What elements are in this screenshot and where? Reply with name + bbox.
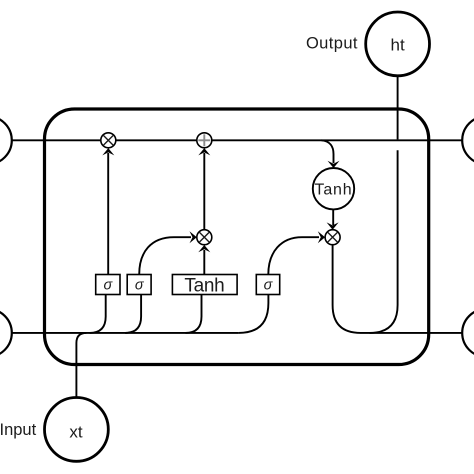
svg-text:xt: xt [69, 423, 83, 442]
svg-text:Tanh: Tanh [315, 181, 353, 198]
svg-text:σ: σ [264, 278, 274, 294]
svg-text:Input: Input [0, 421, 37, 439]
svg-text:σ: σ [104, 278, 114, 294]
svg-text:σ: σ [135, 278, 145, 294]
svg-text:ht: ht [391, 35, 405, 54]
svg-text:Tanh: Tanh [184, 275, 224, 296]
svg-text:Output: Output [306, 35, 358, 53]
